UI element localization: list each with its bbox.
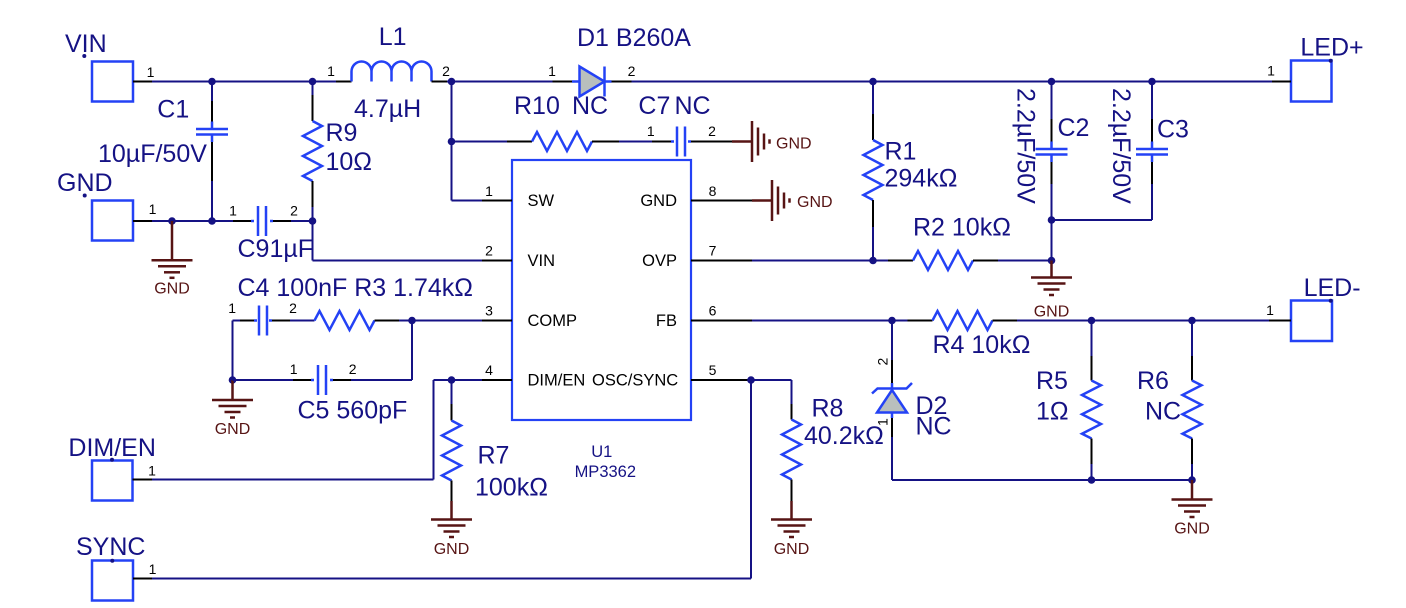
wire C4 to R3 [290, 320, 315, 322]
node junction C3 top [1148, 78, 1156, 86]
svg-text:8: 8 [709, 183, 717, 199]
svg-text:1: 1 [1267, 63, 1275, 79]
ground GND at C1 [152, 221, 193, 278]
svg-text:GND: GND [797, 194, 833, 211]
pin 1 SW of U1 [482, 200, 512, 202]
ground GND at C7 [732, 121, 770, 162]
svg-text:2: 2 [289, 300, 297, 316]
wire R10 to C7 [619, 141, 652, 143]
svg-text:2: 2 [875, 358, 891, 366]
svg-text:SYNC: SYNC [76, 533, 145, 561]
svg-text:L1: L1 [379, 23, 407, 51]
pin 3 COMP of U1 [482, 320, 512, 322]
node junction C1 top [208, 78, 216, 86]
svg-text:R2 10kΩ: R2 10kΩ [913, 214, 1011, 242]
svg-text:R4 10kΩ: R4 10kΩ [933, 331, 1031, 359]
node junction D2 top [888, 317, 896, 325]
node junction OSC/SYNC [747, 376, 755, 384]
svg-text:2: 2 [628, 63, 636, 79]
svg-text:100kΩ: 100kΩ [475, 474, 548, 502]
svg-text:1: 1 [290, 361, 298, 377]
svg-text:1: 1 [229, 203, 237, 219]
svg-text:294kΩ: 294kΩ [885, 165, 958, 193]
svg-text:GND: GND [774, 541, 810, 558]
svg-text:U1: U1 [591, 443, 612, 461]
svg-text:D1 B260A: D1 B260A [577, 24, 691, 52]
wire C2 bottom to C3 bottom [1052, 219, 1153, 221]
node junction R6 top [1188, 317, 1196, 325]
wire C2 bottom to R2 junction [1051, 220, 1053, 261]
wire junction to COMP pin [412, 320, 482, 322]
svg-text:1: 1 [485, 183, 493, 199]
svg-text:DIM/EN: DIM/EN [68, 434, 155, 462]
ground GND at R6 [1172, 480, 1213, 517]
wire R3 to junction [399, 320, 412, 322]
wire C4 down to C5 [232, 321, 234, 381]
resistor R7 [451, 380, 453, 404]
node junction R2 right [1048, 257, 1056, 265]
svg-text:2: 2 [485, 243, 493, 259]
pin 1 of port LED- [1269, 320, 1291, 322]
node junction R5 bottom [1088, 476, 1096, 484]
node junction R1 top [869, 78, 877, 86]
svg-text:DIM/EN: DIM/EN [528, 372, 586, 390]
diode D1 [553, 81, 573, 83]
capacitor C5 [293, 379, 311, 381]
svg-text:1: 1 [149, 561, 157, 577]
svg-text:GND: GND [1174, 521, 1210, 538]
svg-text:NC: NC [572, 92, 608, 120]
ground GND at C5 [212, 380, 253, 418]
diode D2 zener [891, 321, 893, 361]
svg-text:2.2µF/50V: 2.2µF/50V [1107, 88, 1135, 204]
wire junction to R4 [892, 320, 908, 322]
resistor R9 [312, 82, 314, 96]
wire D1 to LED+ [632, 81, 1273, 83]
pin 1 of port GND [133, 220, 152, 222]
svg-text:1: 1 [147, 64, 155, 80]
svg-text:NC: NC [916, 413, 952, 441]
svg-text:C3: C3 [1157, 116, 1189, 144]
capacitor C4 [233, 320, 241, 322]
port GND [92, 201, 133, 241]
ground GND at R7 [431, 501, 472, 537]
svg-text:GND: GND [1034, 304, 1070, 321]
svg-text:3: 3 [485, 303, 493, 319]
svg-text:2: 2 [442, 63, 450, 79]
port VIN [92, 62, 133, 102]
node junction C2 bottom [1048, 216, 1056, 224]
svg-text:OSC/SYNC: OSC/SYNC [592, 372, 678, 390]
svg-text:FB: FB [656, 312, 677, 330]
svg-text:OVP: OVP [642, 252, 677, 270]
capacitor C2 [1051, 82, 1053, 120]
svg-text:1: 1 [875, 418, 891, 426]
svg-text:10Ω: 10Ω [326, 148, 373, 176]
capacitor C1 [211, 82, 213, 102]
wire VIN to L1 [152, 81, 336, 83]
node junction R5 top [1088, 317, 1096, 325]
node junction GND symbol [168, 217, 176, 225]
wire C9 to R9 bottom [291, 220, 313, 222]
port LED+ [1291, 61, 1332, 102]
svg-text:40.2kΩ: 40.2kΩ [804, 422, 884, 450]
wire R4 to LED- [1017, 320, 1269, 322]
svg-text:GND: GND [776, 136, 812, 153]
svg-text:GND: GND [215, 421, 251, 438]
svg-text:LED+: LED+ [1300, 34, 1363, 62]
wire bottom rail D2 to R6 [892, 479, 1192, 481]
svg-text:R1: R1 [885, 138, 917, 166]
svg-text:R10: R10 [514, 92, 560, 120]
wire R1 bottom to R2 [873, 260, 888, 262]
port LED- [1291, 301, 1332, 342]
svg-text:GND: GND [640, 192, 677, 210]
svg-text:1: 1 [548, 63, 556, 79]
svg-text:R6: R6 [1137, 367, 1169, 395]
svg-text:5: 5 [709, 362, 717, 378]
pin 6 FB of U1 [691, 320, 752, 322]
svg-text:1: 1 [327, 63, 335, 79]
capacitor C7 [652, 141, 671, 143]
svg-text:C1: C1 [157, 96, 189, 124]
svg-text:GND: GND [434, 541, 470, 558]
svg-text:C4 100nF R3 1.74kΩ: C4 100nF R3 1.74kΩ [238, 274, 474, 302]
pin 7 OVP of U1 [691, 260, 752, 262]
node junction C1 bottom [208, 217, 216, 225]
wire L1 to D1 [447, 81, 553, 83]
svg-text:1: 1 [228, 300, 236, 316]
pin 4 DIM/EN of U1 [482, 379, 512, 381]
node junction R7 top [448, 376, 456, 384]
resistor R2 [913, 251, 973, 270]
svg-text:R5: R5 [1036, 367, 1068, 395]
wire DIM/EN port to pin 4 [152, 479, 434, 481]
op-amp U1 MP3362 [512, 160, 691, 420]
wire GND port to C9 [152, 220, 233, 222]
pin 5 OSC/SYNC of U1 [691, 379, 748, 381]
svg-text:2: 2 [349, 361, 357, 377]
node junction C2 top [1048, 78, 1056, 86]
svg-text:GND: GND [57, 169, 113, 197]
pin 2 VIN of U1 [482, 260, 512, 262]
svg-text:2: 2 [290, 203, 298, 219]
svg-text:C2: C2 [1058, 114, 1090, 142]
wire C5 to COMP junction [351, 379, 412, 381]
pin 1 of port LED+ [1272, 81, 1291, 83]
ground GND at R8 [771, 501, 812, 537]
pin 1 of port DIM/EN [133, 479, 153, 481]
svg-text:10µF/50V: 10µF/50V [98, 140, 207, 168]
node junction L1 pin2 [448, 78, 456, 86]
ground GND at R2 [1031, 261, 1072, 296]
svg-text:R7: R7 [478, 442, 510, 470]
port SYNC [92, 561, 133, 601]
svg-text:GND: GND [154, 281, 190, 298]
node junction R9 top [309, 78, 317, 86]
node junction R1 bottom [869, 257, 877, 265]
svg-text:NC: NC [675, 92, 711, 120]
capacitor C3 [1151, 82, 1153, 120]
svg-text:6: 6 [709, 303, 717, 319]
node junction R9 bottom [309, 217, 317, 225]
svg-text:R9: R9 [326, 119, 358, 147]
ground GND at pin 8 [752, 180, 790, 221]
svg-text:SW: SW [528, 192, 555, 210]
resistor R8 [791, 380, 793, 404]
wire junction to R10 [452, 141, 508, 143]
svg-text:MP3362: MP3362 [575, 463, 636, 481]
svg-text:4: 4 [485, 362, 493, 378]
svg-text:1: 1 [149, 201, 157, 217]
resistor R4 [933, 311, 993, 330]
svg-text:COMP: COMP [528, 312, 578, 330]
wire junction to C5 [233, 379, 294, 381]
svg-text:VIN: VIN [65, 30, 107, 58]
resistor R10 [507, 141, 532, 143]
svg-text:R8: R8 [812, 395, 844, 423]
node junction C5 left [229, 376, 237, 384]
svg-text:1: 1 [647, 123, 655, 139]
port DIM/EN [92, 461, 133, 501]
wire R2 to C2 bottom [998, 260, 1052, 262]
pin 8 GND of U1 [691, 200, 752, 202]
svg-text:LED-: LED- [1304, 274, 1361, 302]
resistor R6 [1191, 321, 1193, 357]
svg-text:4.7µH: 4.7µH [354, 95, 421, 123]
wire junction to R8 [751, 379, 792, 381]
svg-text:NC: NC [1145, 398, 1181, 426]
wire SYNC port to pin 5 [152, 578, 751, 580]
svg-text:7: 7 [709, 243, 717, 259]
capacitor C9 [233, 220, 251, 222]
resistor R3 [315, 311, 375, 330]
svg-text:1: 1 [148, 463, 156, 479]
pin 1 of port SYNC [133, 578, 152, 580]
svg-text:2.2µF/50V: 2.2µF/50V [1012, 88, 1040, 204]
wire OVP to R1 bottom [752, 260, 873, 262]
svg-text:2: 2 [708, 123, 716, 139]
svg-text:1Ω: 1Ω [1036, 398, 1069, 426]
svg-text:VIN: VIN [528, 252, 556, 270]
node junction COMP [408, 317, 416, 325]
svg-text:C5 560pF: C5 560pF [298, 397, 408, 425]
wire R9 bottom to U1 VIN pin [312, 221, 314, 261]
resistor R1 [872, 82, 874, 115]
svg-text:1: 1 [1266, 302, 1274, 318]
svg-text:C7: C7 [638, 92, 670, 120]
resistor R5 [1091, 321, 1093, 357]
inductor L1 [336, 81, 352, 83]
node junction R6 bottom [1188, 476, 1196, 484]
pin 1 of port VIN [133, 81, 152, 83]
svg-text:C91µF: C91µF [238, 235, 314, 263]
node junction R10 row [448, 138, 456, 146]
wire FB to D2 junction [752, 320, 892, 322]
wire L1 pin2 down to SW [451, 82, 453, 201]
